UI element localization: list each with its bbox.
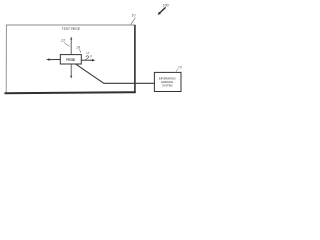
- information handling system box: [154, 72, 181, 91]
- left direction arrow: [46, 58, 60, 60]
- test piece outline (large rectangle): [5, 25, 136, 93]
- reference numeral 26 with leader: [176, 66, 183, 73]
- reference numeral 12 with leader: [61, 38, 70, 47]
- svg-text:INFORMATION: INFORMATION: [159, 77, 176, 81]
- svg-text:PROBE: PROBE: [66, 58, 76, 62]
- svg-text:SYSTEM: SYSTEM: [162, 83, 173, 87]
- down direction arrow: [70, 64, 72, 79]
- svg-text:10: 10: [131, 13, 135, 17]
- reference numeral 10: [131, 13, 136, 24]
- reference numeral 100 with arrow: [158, 4, 169, 15]
- svg-text:18: 18: [76, 45, 80, 49]
- right direction arrow: [82, 59, 96, 61]
- svg-text:TEST PIECE: TEST PIECE: [62, 27, 81, 31]
- svg-text:HANDLING: HANDLING: [161, 80, 174, 84]
- svg-text:100: 100: [163, 4, 169, 8]
- svg-text:2: 2: [84, 55, 89, 62]
- reference numeral 18 with leader: [76, 45, 81, 52]
- up direction arrow: [70, 37, 72, 55]
- probe box: [60, 55, 81, 64]
- svg-text:6: 6: [90, 55, 92, 59]
- svg-text:26: 26: [177, 66, 183, 70]
- svg-text:12: 12: [61, 38, 66, 43]
- cable from probe to information handling system: [76, 64, 155, 83]
